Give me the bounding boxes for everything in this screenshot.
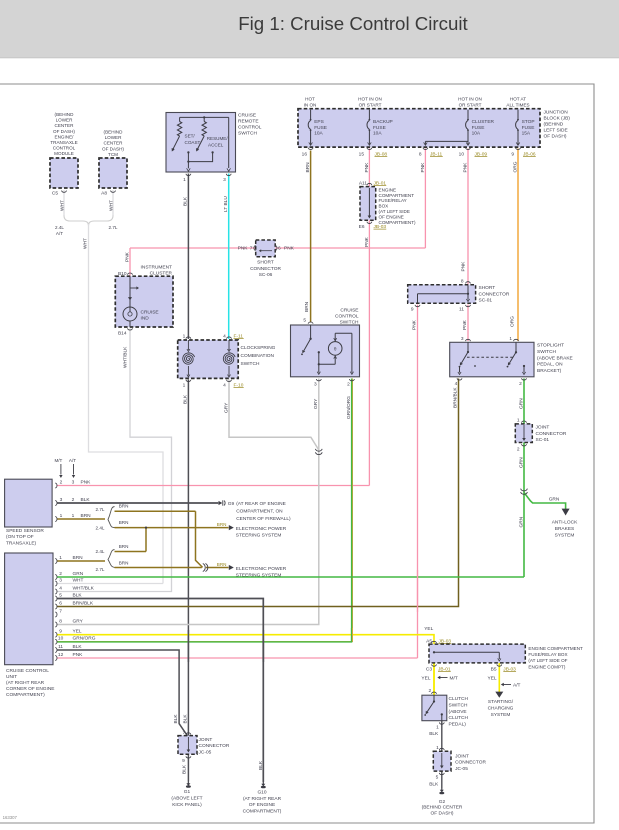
svg-text:BLK: BLK	[429, 731, 439, 737]
svg-text:HOT IN ON: HOT IN ON	[458, 97, 482, 102]
svg-text:A/T: A/T	[69, 458, 76, 463]
svg-text:YEL: YEL	[421, 675, 430, 681]
svg-text:COMPARTMENT): COMPARTMENT)	[379, 220, 417, 225]
svg-text:UNIT: UNIT	[6, 674, 17, 680]
svg-text:(AT LEFT SIDE: (AT LEFT SIDE	[379, 209, 410, 214]
svg-text:ENGINE COMPARTMENT: ENGINE COMPARTMENT	[528, 646, 583, 651]
svg-text:M/T: M/T	[54, 458, 62, 463]
svg-text:3: 3	[314, 382, 317, 388]
svg-text:2.4L: 2.4L	[96, 525, 105, 530]
svg-text:8: 8	[461, 278, 464, 284]
svg-text:FUSE: FUSE	[314, 125, 327, 131]
svg-text:1: 1	[60, 513, 63, 519]
svg-text:CLUTCH: CLUTCH	[449, 696, 469, 702]
svg-text:COAST: COAST	[185, 140, 201, 145]
svg-text:10: 10	[459, 151, 465, 157]
svg-text:CORNER OF ENGINE: CORNER OF ENGINE	[6, 686, 55, 692]
svg-text:5: 5	[436, 775, 439, 781]
svg-text:SHORT: SHORT	[257, 260, 274, 266]
svg-text:BRACKET): BRACKET)	[537, 368, 562, 374]
svg-text:3: 3	[72, 479, 75, 485]
svg-text:ENGINE COMPT): ENGINE COMPT)	[528, 664, 565, 669]
svg-text:WHT/BLK: WHT/BLK	[123, 346, 129, 368]
svg-text:PNK: PNK	[364, 162, 370, 173]
svg-text:SC-01: SC-01	[536, 437, 550, 443]
svg-text:7: 7	[250, 246, 253, 252]
svg-text:BRN: BRN	[304, 301, 310, 312]
svg-text:1: 1	[72, 513, 75, 519]
svg-text:9: 9	[59, 629, 62, 635]
svg-text:SPEED SENSOR: SPEED SENSOR	[6, 528, 44, 534]
svg-text:GRN/ORG: GRN/ORG	[73, 636, 96, 642]
svg-text:STEERING SYSTEM: STEERING SYSTEM	[236, 573, 282, 579]
svg-text:WHT: WHT	[108, 200, 114, 211]
svg-text:BLK: BLK	[73, 592, 83, 598]
svg-text:8: 8	[419, 151, 422, 157]
svg-text:(ABOVE LEFT: (ABOVE LEFT	[171, 796, 202, 802]
svg-text:2.4L: 2.4L	[55, 225, 64, 230]
svg-text:JUNCTION: JUNCTION	[544, 110, 569, 116]
svg-text:CONTROL: CONTROL	[238, 125, 262, 131]
svg-text:OF ENGINE: OF ENGINE	[249, 802, 275, 808]
svg-text:2: 2	[72, 497, 75, 503]
svg-text:11: 11	[58, 644, 63, 650]
svg-text:OR START: OR START	[359, 103, 382, 108]
svg-text:2.4L: 2.4L	[96, 549, 105, 554]
svg-text:OF DASH): OF DASH)	[102, 146, 124, 151]
svg-text:15: 15	[359, 151, 365, 157]
svg-text:JOINT: JOINT	[536, 425, 550, 431]
svg-text:BLK: BLK	[182, 714, 188, 724]
svg-text:1: 1	[59, 555, 62, 561]
svg-text:B14: B14	[118, 331, 127, 337]
svg-text:EPS: EPS	[314, 119, 324, 125]
svg-text:FUSE: FUSE	[373, 125, 386, 131]
svg-text:10A: 10A	[314, 131, 323, 137]
svg-text:SWITCH: SWITCH	[241, 361, 260, 367]
svg-text:PEDAL, ON: PEDAL, ON	[537, 362, 563, 368]
svg-text:GRN: GRN	[518, 398, 524, 409]
svg-text:SWITCH: SWITCH	[449, 702, 468, 708]
svg-text:E6: E6	[359, 224, 365, 230]
svg-text:BRN: BRN	[119, 520, 129, 525]
svg-text:BLK: BLK	[173, 714, 179, 724]
svg-text:LOWER: LOWER	[56, 118, 74, 123]
svg-text:5: 5	[303, 318, 306, 324]
svg-text:1: 1	[183, 177, 186, 183]
svg-text:3: 3	[223, 177, 226, 183]
svg-text:STOP: STOP	[522, 119, 535, 125]
svg-text:BRN/BLK: BRN/BLK	[453, 387, 459, 408]
svg-text:BRN: BRN	[81, 513, 92, 519]
svg-text:Fig 1: Cruise Control Circuit: Fig 1: Cruise Control Circuit	[238, 13, 468, 34]
svg-text:OF DASH): OF DASH)	[431, 811, 454, 817]
svg-text:1: 1	[509, 336, 512, 342]
svg-text:YEL: YEL	[73, 629, 82, 635]
svg-text:4: 4	[223, 334, 226, 340]
svg-text:4: 4	[59, 585, 62, 591]
svg-text:(BEHIND CENTER: (BEHIND CENTER	[422, 805, 463, 811]
svg-text:GRN: GRN	[518, 516, 524, 527]
svg-text:SC-06: SC-06	[259, 272, 273, 278]
svg-text:M/T: M/T	[450, 676, 458, 682]
svg-text:BRAKES: BRAKES	[555, 526, 574, 532]
svg-text:CONTROL: CONTROL	[335, 314, 359, 320]
svg-text:2: 2	[60, 479, 63, 485]
svg-text:FUSE/RELAY BOX: FUSE/RELAY BOX	[528, 652, 567, 657]
svg-text:G1: G1	[184, 789, 191, 795]
svg-text:G10: G10	[257, 790, 266, 796]
svg-text:BLK: BLK	[258, 760, 264, 770]
svg-text:CENTER: CENTER	[104, 141, 124, 146]
svg-text:BLK: BLK	[183, 196, 189, 206]
svg-text:6: 6	[278, 246, 281, 252]
svg-text:GRN/ORG: GRN/ORG	[346, 396, 352, 419]
svg-text:11: 11	[459, 306, 464, 312]
svg-text:10A: 10A	[472, 131, 481, 137]
svg-text:CLUTCH: CLUTCH	[449, 715, 469, 721]
svg-text:JOINT: JOINT	[455, 753, 469, 759]
svg-text:STEERING SYSTEM: STEERING SYSTEM	[236, 533, 282, 539]
svg-text:WHT: WHT	[59, 200, 65, 211]
svg-text:9: 9	[411, 306, 414, 312]
svg-text:BRN: BRN	[73, 555, 84, 561]
svg-text:CRUISE CONTROL: CRUISE CONTROL	[6, 668, 49, 674]
svg-text:2: 2	[519, 381, 522, 387]
svg-text:GRY: GRY	[224, 402, 230, 413]
svg-text:C5: C5	[52, 191, 58, 197]
svg-text:HOT AT: HOT AT	[510, 97, 526, 102]
svg-text:16: 16	[302, 151, 308, 157]
svg-text:LOWER: LOWER	[105, 135, 123, 140]
svg-text:TRANSAXLE: TRANSAXLE	[50, 140, 77, 145]
svg-text:PNK: PNK	[238, 246, 249, 252]
svg-text:GRN: GRN	[549, 497, 560, 503]
svg-text:WHT: WHT	[82, 238, 88, 249]
svg-text:A/T: A/T	[513, 683, 521, 689]
svg-text:SYSTEM: SYSTEM	[555, 533, 575, 539]
svg-text:OF ENGINE: OF ENGINE	[379, 215, 404, 220]
svg-text:3: 3	[59, 577, 62, 583]
svg-text:PNK: PNK	[460, 261, 466, 272]
svg-text:2: 2	[347, 382, 350, 388]
svg-text:CENTER: CENTER	[55, 123, 75, 128]
svg-text:WHT: WHT	[73, 577, 84, 583]
svg-text:3: 3	[461, 336, 464, 342]
svg-text:STARTING/: STARTING/	[488, 699, 514, 705]
svg-text:COMBINATION: COMBINATION	[241, 353, 275, 359]
svg-text:B5: B5	[491, 666, 497, 672]
svg-text:FUSE: FUSE	[472, 125, 485, 131]
svg-text:9: 9	[182, 758, 185, 764]
svg-text:COMPARTMENT): COMPARTMENT)	[6, 692, 45, 698]
svg-text:3: 3	[60, 497, 63, 503]
svg-text:PNK: PNK	[124, 251, 130, 262]
svg-text:10: 10	[58, 636, 64, 642]
svg-text:JC-05: JC-05	[199, 749, 212, 755]
svg-text:C3: C3	[426, 666, 432, 672]
svg-text:BOX: BOX	[379, 204, 389, 209]
svg-text:G9: G9	[228, 501, 235, 507]
svg-text:JOINT: JOINT	[199, 737, 213, 743]
svg-text:SET/: SET/	[185, 134, 196, 139]
svg-text:8: 8	[59, 618, 62, 624]
svg-text:2.7L: 2.7L	[96, 567, 105, 572]
svg-text:BRN: BRN	[119, 544, 129, 549]
svg-text:COMPARTMENT: COMPARTMENT	[379, 193, 415, 198]
svg-text:INSTRUMENT: INSTRUMENT	[141, 265, 173, 271]
svg-text:CONTROL: CONTROL	[53, 146, 76, 151]
svg-text:GRY: GRY	[73, 618, 84, 624]
svg-text:GRN: GRN	[73, 571, 84, 577]
svg-text:1: 1	[183, 334, 186, 340]
svg-text:BLK: BLK	[81, 497, 91, 503]
svg-text:BACKUP: BACKUP	[373, 119, 393, 125]
svg-text:ORG: ORG	[509, 316, 515, 327]
svg-text:ALL TIMES: ALL TIMES	[506, 103, 529, 108]
svg-text:1: 1	[517, 418, 520, 424]
svg-text:BRN: BRN	[119, 504, 129, 509]
svg-text:PNK: PNK	[412, 319, 418, 330]
svg-text:TCM: TCM	[108, 152, 118, 157]
svg-text:BLK: BLK	[182, 394, 188, 404]
svg-text:2: 2	[428, 688, 431, 694]
svg-text:9: 9	[511, 151, 514, 157]
svg-text:CLUSTER: CLUSTER	[150, 271, 173, 277]
svg-text:CLUSTER: CLUSTER	[472, 119, 495, 125]
svg-text:SWITCH: SWITCH	[340, 320, 359, 326]
svg-text:SWITCH: SWITCH	[238, 131, 257, 137]
svg-text:MODULE: MODULE	[54, 151, 74, 156]
svg-text:IND: IND	[141, 316, 150, 322]
svg-text:(ABOVE BRAKE: (ABOVE BRAKE	[537, 355, 573, 361]
svg-text:G2: G2	[439, 799, 446, 805]
svg-text:1: 1	[436, 725, 439, 731]
svg-text:IN ON: IN ON	[304, 103, 317, 108]
svg-text:CENTER OF FIREWALL): CENTER OF FIREWALL)	[236, 516, 291, 522]
svg-text:PNK: PNK	[73, 652, 84, 658]
svg-text:BLOCK (JB): BLOCK (JB)	[544, 116, 571, 122]
svg-text:OR START: OR START	[459, 103, 482, 108]
svg-text:SYSTEM: SYSTEM	[491, 712, 511, 718]
svg-text:ANTI-LOCK: ANTI-LOCK	[552, 520, 578, 526]
svg-text:(ON TOP OF: (ON TOP OF	[6, 534, 34, 540]
svg-text:ENGINE: ENGINE	[379, 187, 397, 192]
svg-text:A8: A8	[101, 191, 107, 197]
svg-text:PNK: PNK	[462, 162, 468, 173]
svg-text:KICK PANEL): KICK PANEL)	[172, 802, 202, 808]
svg-text:12: 12	[58, 652, 64, 658]
svg-text:JC-05: JC-05	[455, 766, 468, 772]
svg-text:PNK: PNK	[81, 479, 92, 485]
svg-text:2: 2	[59, 571, 62, 577]
svg-text:GRY: GRY	[313, 398, 319, 409]
svg-text:5: 5	[59, 592, 62, 598]
svg-text:2.7L: 2.7L	[109, 225, 118, 230]
svg-text:(BEHIND: (BEHIND	[544, 122, 564, 128]
svg-text:6: 6	[59, 600, 62, 606]
svg-text:BRN: BRN	[305, 162, 311, 173]
svg-text:CLOCKSPRING: CLOCKSPRING	[241, 345, 276, 351]
svg-text:TRANSAXLE): TRANSAXLE)	[6, 540, 37, 546]
svg-text:WHT/BLK: WHT/BLK	[73, 585, 95, 591]
svg-text:163307: 163307	[3, 815, 18, 820]
svg-text:SWITCH: SWITCH	[537, 349, 556, 355]
svg-text:(AT LEFT SIDE OF: (AT LEFT SIDE OF	[528, 658, 567, 663]
svg-text:GRN: GRN	[518, 457, 524, 468]
svg-text:(AT REAR OF ENGINE: (AT REAR OF ENGINE	[236, 501, 286, 507]
svg-text:COMPARTMENT, ON: COMPARTMENT, ON	[236, 508, 283, 514]
svg-text:PNK: PNK	[462, 319, 468, 330]
svg-text:15A: 15A	[522, 131, 531, 137]
svg-text:A/T: A/T	[56, 231, 63, 236]
svg-text:PEDAL): PEDAL)	[449, 722, 467, 728]
svg-text:2: 2	[517, 447, 520, 453]
svg-text:(AT RIGHT REAR: (AT RIGHT REAR	[243, 796, 282, 802]
svg-text:REMOTE: REMOTE	[238, 119, 259, 125]
svg-text:FUSE: FUSE	[522, 125, 535, 131]
svg-text:A11: A11	[359, 180, 368, 186]
svg-text:(BEHIND: (BEHIND	[55, 112, 75, 117]
svg-text:CONNECTOR: CONNECTOR	[479, 291, 510, 297]
svg-text:7: 7	[59, 608, 62, 614]
svg-text:10A: 10A	[373, 131, 382, 137]
svg-text:CONNECTOR: CONNECTOR	[250, 266, 281, 272]
svg-text:2.7L: 2.7L	[96, 507, 105, 512]
svg-text:YEL: YEL	[488, 675, 497, 681]
svg-text:PNK: PNK	[420, 162, 426, 173]
svg-text:ENGINE/: ENGINE/	[55, 134, 75, 139]
svg-text:ORG: ORG	[512, 161, 518, 172]
svg-text:LT BLU: LT BLU	[223, 196, 229, 212]
svg-text:BLK: BLK	[73, 644, 83, 650]
svg-text:YEL: YEL	[424, 626, 433, 632]
svg-text:PNK: PNK	[364, 236, 370, 247]
svg-text:OF DASH): OF DASH)	[53, 129, 75, 134]
svg-text:COMPARTMENT): COMPARTMENT)	[243, 808, 282, 814]
svg-text:SHORT: SHORT	[479, 285, 496, 291]
svg-text:ELECTRONIC POWER: ELECTRONIC POWER	[236, 526, 287, 532]
svg-text:STOPLIGHT: STOPLIGHT	[537, 343, 564, 349]
svg-text:BLK: BLK	[182, 764, 188, 774]
svg-text:CRUISE: CRUISE	[340, 308, 358, 314]
svg-text:CRUISE: CRUISE	[141, 310, 159, 316]
svg-text:LEFT SIDE: LEFT SIDE	[544, 128, 568, 134]
svg-text:(AT RIGHT REAR: (AT RIGHT REAR	[6, 680, 45, 686]
svg-text:(BEHIND: (BEHIND	[104, 130, 124, 135]
svg-text:BRN: BRN	[119, 560, 129, 565]
svg-text:CONNECTOR: CONNECTOR	[536, 431, 567, 437]
svg-text:1: 1	[183, 383, 186, 389]
svg-text:BRN: BRN	[217, 522, 227, 527]
svg-text:CONNECTOR: CONNECTOR	[199, 743, 230, 749]
svg-text:4: 4	[455, 381, 458, 387]
svg-text:RESUME/: RESUME/	[207, 136, 229, 141]
svg-text:OF DASH): OF DASH)	[544, 134, 567, 140]
svg-text:ACCEL: ACCEL	[208, 142, 224, 147]
svg-text:HOT IN ON: HOT IN ON	[358, 97, 382, 102]
svg-text:ELECTRONIC POWER: ELECTRONIC POWER	[236, 566, 287, 572]
svg-text:(ABOVE: (ABOVE	[449, 709, 467, 715]
svg-text:SC-01: SC-01	[479, 298, 493, 304]
svg-text:BRN/BLK: BRN/BLK	[73, 600, 94, 606]
svg-text:BRN: BRN	[217, 562, 227, 567]
svg-text:PNK: PNK	[284, 246, 295, 252]
svg-text:4: 4	[223, 383, 226, 389]
svg-text:CHARGING: CHARGING	[488, 705, 514, 711]
svg-text:HOT: HOT	[305, 97, 315, 102]
svg-text:CONNECTOR: CONNECTOR	[455, 760, 486, 766]
svg-text:1: 1	[436, 745, 439, 751]
svg-text:CRUISE: CRUISE	[238, 113, 256, 119]
svg-text:FUSE/RELAY: FUSE/RELAY	[379, 198, 407, 203]
svg-text:BLK: BLK	[429, 782, 439, 788]
